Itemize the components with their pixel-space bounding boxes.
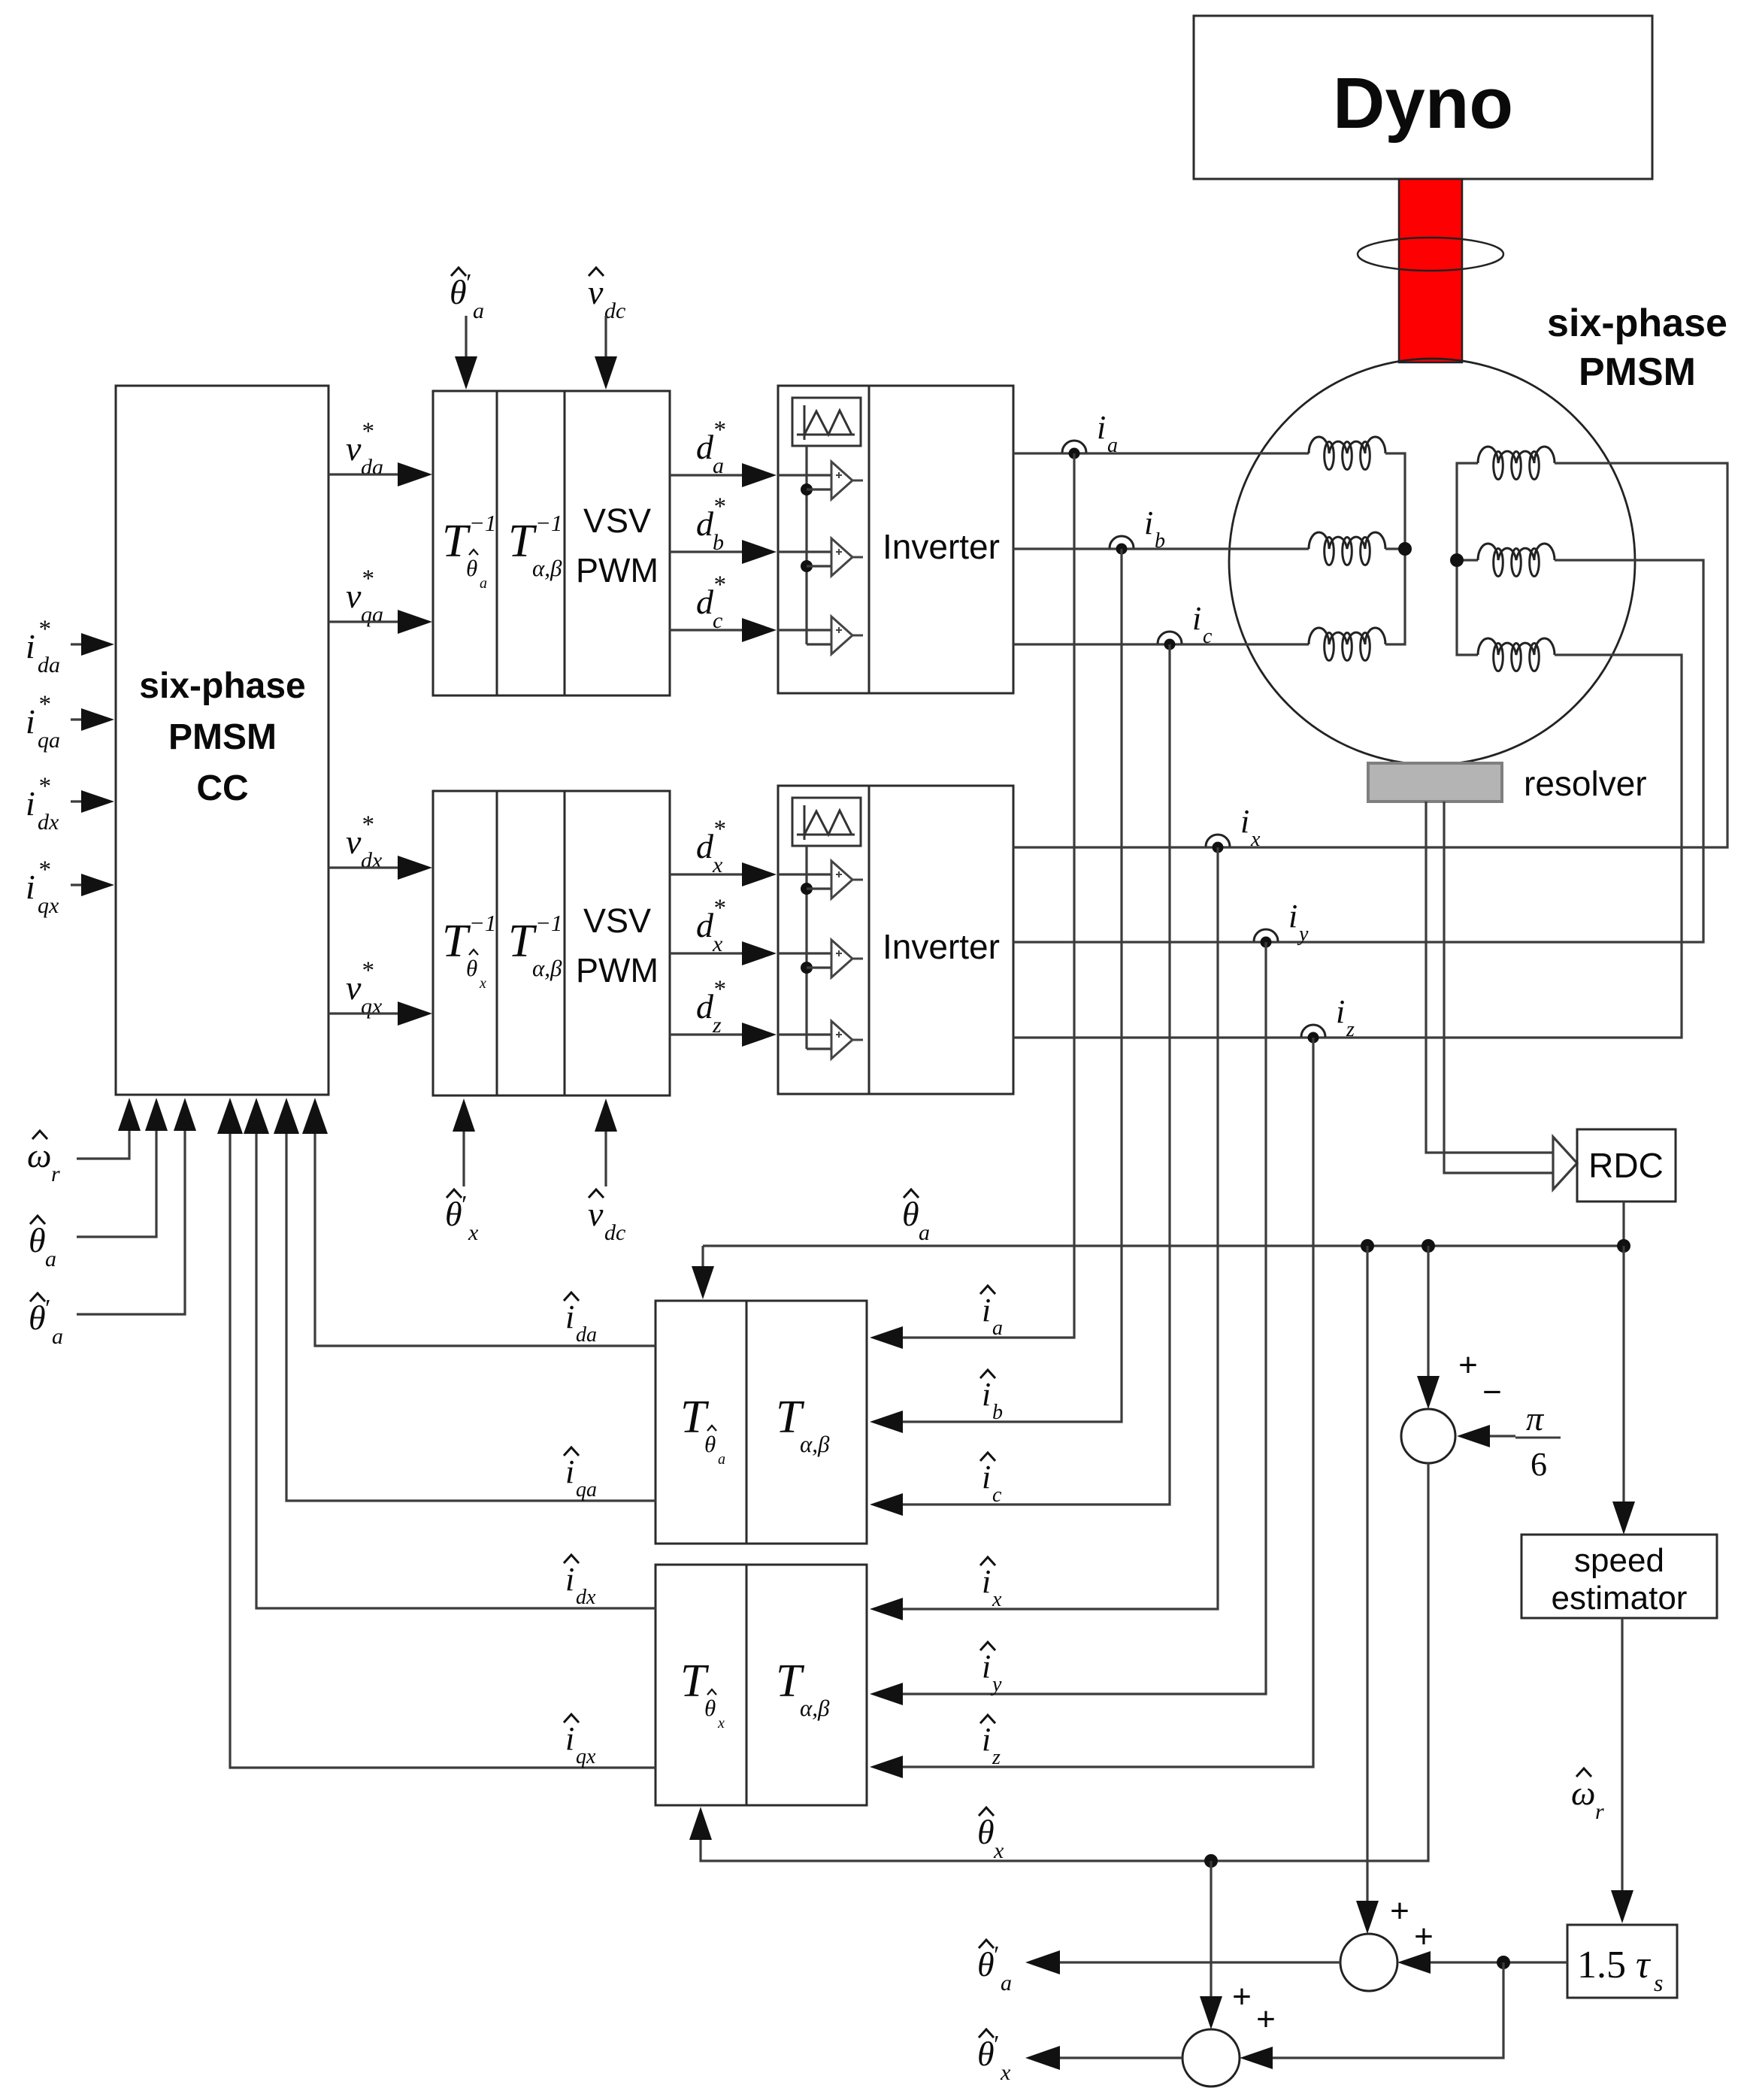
svg-text:i: i (1097, 409, 1106, 446)
node on θ̂_a net (to sum1) (1422, 1239, 1435, 1253)
svg-text:τ: τ (1636, 1944, 1652, 1986)
svg-text:α,β: α,β (532, 955, 562, 981)
resolver cable to RDC (hollow arrow) (1426, 802, 1553, 1153)
svg-text:b: b (992, 1401, 1003, 1424)
wire θ̂_a into speed estimator (1622, 1246, 1624, 1526)
wire î_qx from transform block to CC (230, 1107, 656, 1768)
left winding star bus (1385, 453, 1405, 644)
svg-text:+: + (1414, 1918, 1434, 1955)
node on θ̂_a net (to sum2) (1361, 1239, 1374, 1253)
svg-text:*: * (713, 816, 725, 843)
svg-text:Inverter: Inverter (883, 927, 1000, 966)
svg-text:a: a (992, 1317, 1003, 1340)
current sensor i_a (1062, 441, 1086, 459)
wire phase x from winding to inverter (1013, 463, 1727, 847)
svg-text:c: c (992, 1483, 1002, 1507)
svg-text:i: i (1192, 600, 1201, 637)
svg-text:ω: ω (27, 1136, 51, 1174)
svg-text:a: a (473, 298, 484, 323)
svg-text:c: c (1203, 625, 1213, 648)
svg-text:speed: speed (1574, 1542, 1664, 1579)
svg-text:v: v (346, 429, 362, 468)
svg-text:α,β: α,β (800, 1431, 830, 1457)
svg-text:x: x (468, 1220, 479, 1245)
svg-text:π: π (1526, 1399, 1545, 1438)
svg-text:estimator: estimator (1552, 1580, 1688, 1617)
svg-text:*: * (38, 691, 50, 718)
svg-text:a: a (52, 1324, 63, 1349)
svg-text:θ: θ (29, 1221, 46, 1259)
output θ̂′_a wire (1036, 1961, 1340, 1963)
svg-text:v: v (346, 968, 362, 1007)
svg-text:qx: qx (576, 1745, 596, 1768)
wire θ̂_a branch to summing junction 2 (1366, 1246, 1368, 1925)
svg-text:qx: qx (38, 893, 59, 918)
wire measured î_c to transform block (879, 644, 1170, 1505)
svg-text:*: * (361, 418, 374, 445)
summing junction 2 (1340, 1934, 1397, 1991)
svg-text:i: i (26, 784, 35, 823)
svg-text:+: + (1232, 1978, 1252, 2015)
svg-text:+: + (1458, 1347, 1478, 1383)
svg-text:PMSM: PMSM (1579, 350, 1696, 394)
wire θ̂_x branch to summing junction 3 (1210, 1861, 1212, 2020)
inverter block (alpha set abc) (778, 386, 1013, 693)
wire phase z from winding to inverter (1013, 655, 1682, 1038)
wire θ̂_x from sum1 output (701, 1463, 1428, 1861)
svg-text:*: * (713, 895, 725, 922)
stator winding (x-set coil) (1478, 544, 1555, 577)
svg-text:a: a (919, 1220, 930, 1245)
svg-text:*: * (361, 811, 374, 838)
svg-text:i: i (1240, 803, 1249, 840)
svg-text:−1: −1 (535, 510, 562, 536)
speed estimator block (1521, 1535, 1717, 1618)
svg-text:d: d (696, 428, 714, 466)
svg-text:v: v (346, 577, 362, 615)
svg-text:d: d (696, 906, 714, 944)
svg-text:x: x (1250, 828, 1261, 851)
svg-text:b: b (1155, 529, 1165, 553)
svg-text:VSV: VSV (583, 502, 651, 540)
svg-text:′: ′ (44, 1295, 50, 1323)
svg-text:i: i (26, 702, 35, 741)
transform block T^-1_θ̂a T^-1_αβ VSV PWM (alpha set) (433, 391, 670, 695)
svg-text:z: z (992, 1746, 1001, 1769)
current sensor i_x (1206, 835, 1230, 853)
node on 1.5τs output (1497, 1956, 1510, 1969)
svg-text:dx: dx (576, 1586, 596, 1609)
svg-text:PWM: PWM (576, 951, 659, 989)
svg-text:x: x (992, 1588, 1002, 1611)
svg-text:y: y (990, 1673, 1002, 1696)
current sensor i_b (1110, 536, 1134, 555)
wire θ̂_a branch to summing junction 1 (1427, 1246, 1429, 1400)
svg-text:α,β: α,β (800, 1695, 830, 1721)
svg-text:i: i (982, 1563, 991, 1600)
svg-text:v: v (588, 273, 604, 311)
svg-text:i: i (565, 1561, 574, 1598)
wire measured î_z to transform block (879, 1038, 1313, 1767)
svg-text:dx: dx (38, 810, 59, 835)
svg-text:i: i (26, 627, 35, 665)
svg-text:*: * (713, 417, 725, 444)
wire phase y from winding to inverter (1013, 560, 1703, 942)
svg-text:v: v (588, 1195, 604, 1233)
svg-text:a: a (45, 1247, 56, 1271)
svg-text:−1: −1 (469, 910, 496, 936)
svg-text:i: i (982, 1376, 991, 1413)
node on θ̂_x net (1204, 1854, 1218, 1868)
svg-text:da: da (361, 455, 383, 480)
right winding star bus (1457, 463, 1478, 655)
svg-text:qa: qa (576, 1478, 597, 1502)
resolver block (1368, 763, 1502, 802)
six-phase PMSM CC controller block (116, 386, 329, 1095)
svg-text:x: x (1000, 2060, 1011, 2085)
svg-text:da: da (576, 1323, 597, 1347)
svg-text:θ: θ (466, 955, 477, 981)
svg-text:i: i (982, 1459, 991, 1495)
stator winding (x-set coil) (1478, 447, 1555, 480)
output θ̂′_x wire (1036, 2056, 1182, 2059)
Dyno block (1194, 16, 1652, 179)
gain block 1.5τ_s (1567, 1925, 1677, 1998)
svg-text:i: i (982, 1721, 991, 1758)
svg-text:a: a (480, 575, 487, 592)
svg-text:6: 6 (1531, 1446, 1547, 1483)
svg-text:i: i (565, 1453, 574, 1490)
right star point node (1450, 553, 1464, 567)
wire î_da from transform block to CC (315, 1107, 656, 1346)
wire branch to sum3 (1249, 1962, 1503, 2058)
svg-text:*: * (38, 773, 50, 800)
RDC block (1577, 1129, 1676, 1202)
svg-text:−1: −1 (535, 910, 562, 936)
svg-text:qa: qa (38, 728, 60, 753)
svg-text:i: i (565, 1298, 574, 1335)
svg-text:i: i (982, 1648, 991, 1685)
svg-text:′: ′ (465, 269, 471, 297)
svg-text:′: ′ (460, 1191, 466, 1219)
svg-text:CC: CC (196, 768, 248, 808)
svg-text:Inverter: Inverter (883, 527, 1000, 566)
svg-text:Dyno: Dyno (1333, 63, 1513, 144)
svg-text:′: ′ (992, 1941, 998, 1969)
svg-text:d: d (696, 583, 714, 621)
wire î_qa from transform block to CC (286, 1107, 656, 1501)
stator winding b (coil) (1309, 532, 1385, 565)
left star point node (1398, 542, 1412, 556)
svg-text:a: a (1001, 1971, 1012, 1995)
svg-text:i: i (1336, 993, 1345, 1030)
svg-text:*: * (713, 976, 725, 1003)
svg-text:*: * (713, 493, 725, 520)
svg-text:PWM: PWM (576, 551, 659, 589)
wire 1.5τs output to sum2 (1406, 1961, 1567, 1963)
svg-text:*: * (361, 565, 374, 592)
wire î_dx from transform block to CC (256, 1107, 656, 1608)
wire phase c from inverter to winding (1013, 643, 1309, 645)
svg-text:1.5: 1.5 (1577, 1944, 1626, 1986)
svg-text:qx: qx (361, 994, 383, 1019)
svg-text:i: i (1288, 898, 1297, 935)
svg-text:α,β: α,β (532, 555, 562, 581)
svg-text:x: x (717, 1715, 725, 1732)
svg-text:d: d (696, 987, 714, 1026)
svg-text:qa: qa (361, 602, 383, 627)
svg-text:θ: θ (466, 555, 477, 581)
svg-text:dc: dc (604, 1220, 625, 1245)
rotation ellipse (1358, 238, 1503, 271)
stator winding a (coil) (1309, 437, 1385, 470)
svg-text:d: d (696, 505, 714, 543)
motor shaft (red) (1399, 179, 1462, 362)
svg-text:z: z (1346, 1018, 1355, 1041)
svg-text:RDC: RDC (1588, 1146, 1664, 1185)
svg-text:a: a (718, 1451, 725, 1468)
wire phase a from inverter to winding (1013, 452, 1309, 454)
svg-text:d: d (696, 827, 714, 865)
svg-text:−: − (1482, 1374, 1502, 1411)
svg-text:dx: dx (361, 848, 383, 873)
svg-text:i: i (982, 1292, 991, 1329)
stator winding c (coil) (1309, 628, 1385, 661)
svg-text:x: x (993, 1838, 1004, 1863)
svg-text:θ: θ (977, 1813, 995, 1851)
inverter block (x set xyz) (778, 786, 1013, 1094)
svg-text:a: a (1107, 434, 1118, 457)
svg-text:θ: θ (902, 1195, 919, 1233)
svg-text:i: i (1144, 505, 1153, 541)
svg-text:s: s (1654, 1969, 1663, 1996)
svg-text:six-phase: six-phase (139, 666, 305, 706)
svg-text:x: x (479, 975, 486, 992)
svg-text:*: * (361, 957, 374, 984)
svg-text:y: y (1297, 923, 1309, 946)
svg-text:θ: θ (704, 1695, 716, 1721)
svg-text:+: + (1256, 2001, 1276, 2038)
svg-text:*: * (38, 856, 50, 883)
node on θ̂_a net (RDC tee) (1617, 1239, 1630, 1253)
wire measured î_x to transform block (879, 847, 1218, 1609)
svg-text:*: * (38, 616, 50, 643)
svg-text:resolver: resolver (1524, 764, 1647, 803)
svg-text:VSV: VSV (583, 902, 651, 940)
wire measured î_y to transform block (879, 942, 1266, 1694)
svg-text:dc: dc (604, 298, 625, 323)
transform block T_θ̂x T_αβ (656, 1565, 867, 1805)
svg-text:r: r (51, 1162, 60, 1186)
svg-text:PMSM: PMSM (168, 717, 277, 757)
svg-text:θ: θ (704, 1431, 716, 1457)
svg-text:da: da (38, 653, 60, 677)
stator winding (x-set coil) (1478, 638, 1555, 671)
svg-text:−1: −1 (469, 510, 496, 536)
svg-text:′: ′ (992, 2031, 998, 2059)
current sensor i_y (1254, 929, 1278, 948)
svg-text:i: i (26, 868, 35, 906)
wire phase b from inverter to winding (1013, 547, 1309, 550)
current sensor i_z (1301, 1025, 1325, 1044)
svg-text:r: r (1595, 1799, 1604, 1824)
wire ω̂_r from speed estimator to 1.5τs (1621, 1618, 1623, 1914)
svg-text:six-phase: six-phase (1547, 302, 1727, 345)
six-phase PMSM motor circle (1229, 359, 1635, 765)
transform block T^-1_θ̂x T^-1_αβ VSV PWM (x set) (433, 791, 670, 1095)
wire θ̂_a net from RDC (1622, 1202, 1624, 1246)
current sensor i_c (1158, 632, 1182, 650)
wire measured î_b to transform block (879, 549, 1122, 1422)
transform block T_θ̂a T_αβ (656, 1301, 867, 1544)
wire measured î_a to transform block (879, 453, 1074, 1338)
svg-text:i: i (565, 1720, 574, 1757)
summing junction 3 (1182, 2029, 1240, 2086)
svg-text:ω: ω (1571, 1774, 1595, 1812)
svg-text:*: * (713, 571, 725, 598)
svg-text:+: + (1390, 1892, 1409, 1929)
summing junction 1 (1401, 1409, 1455, 1463)
svg-text:v: v (346, 823, 362, 861)
